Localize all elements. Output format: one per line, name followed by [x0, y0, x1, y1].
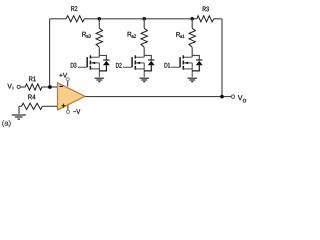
resistor R3 [197, 16, 214, 22]
resistor Ra3 [96, 28, 102, 47]
op-amp U1 [58, 83, 86, 110]
label Ra1 subscript [180, 35, 184, 38]
+V supply pin [67, 81, 69, 87]
label D3 [71, 63, 77, 68]
ground (cell D1) [188, 78, 198, 82]
wire op-amp output [85, 96, 231, 98]
label Ra2 subscript [132, 34, 136, 37]
wire R4 to non-inverting input [42, 105, 57, 107]
wire Ra3 to drain [98, 47, 100, 57]
label Ra2 [128, 32, 132, 37]
wire rail to Ra1 [191, 19, 193, 28]
wire rail node2 to node1 [144, 18, 192, 20]
label (a) [2, 120, 10, 127]
label D1 [165, 63, 171, 68]
ground (cell D3) [95, 78, 105, 82]
wire R4 left to ground [19, 106, 21, 114]
node junction dot on rail (cell 3) [98, 17, 102, 21]
label Vo [238, 95, 243, 100]
resistor R1 [25, 84, 42, 90]
body diode of D3 [99, 60, 110, 71]
wire left rail down [49, 19, 51, 87]
resistor R2 [66, 16, 84, 22]
label R2 [71, 6, 77, 11]
resistor R4 [21, 103, 42, 109]
label +V [59, 73, 67, 78]
wire top rail [50, 18, 66, 20]
wire rail node3 to node2 [99, 18, 144, 20]
label Vi subscript [12, 86, 14, 90]
wire rail node1 to R3 [192, 18, 197, 20]
label D2 [116, 63, 122, 68]
wire right rail down [221, 19, 223, 97]
label Ra1 [176, 32, 180, 37]
body diode of D2 [144, 60, 155, 71]
op-amp plus sign [62, 104, 66, 108]
wire Ra2 to drain [143, 47, 145, 57]
wire R3 to right corner [214, 18, 222, 20]
node junction dot on rail (cell 1) [190, 17, 194, 21]
node inverting input junction dot [48, 85, 52, 89]
label Ra3 subscript [86, 34, 90, 37]
wire jog to diode top [144, 55, 151, 60]
label R1 [29, 76, 36, 81]
wire jog to diode top [99, 55, 106, 60]
ground (R4) [12, 115, 26, 119]
label R4 [28, 95, 35, 100]
wire Vi to R1 [20, 86, 25, 88]
node output junction dot [220, 95, 224, 99]
label R3 [203, 6, 209, 11]
resistor Ra1 [189, 28, 195, 47]
wire rail to Ra2 [143, 19, 145, 28]
wire Ra1 to drain [191, 47, 193, 57]
wire rail to Ra3 [98, 19, 100, 28]
label -V [73, 109, 80, 114]
transistor D1 (MOSFET) [171, 55, 193, 77]
wire rail R2 to node3 [84, 18, 99, 20]
ground (cell D2) [140, 78, 150, 82]
op-amp minus sign [59, 85, 63, 87]
label Vo subscript [243, 99, 246, 103]
output terminal Vo [231, 95, 234, 98]
transistor D3 (MOSFET) [78, 55, 100, 77]
node junction dot on rail (cell 2) [142, 17, 146, 21]
label Ra3 [82, 32, 86, 37]
wire R1 to inverting node [42, 86, 58, 88]
body diode of D1 [192, 60, 203, 71]
transistor D2 (MOSFET) [123, 55, 145, 77]
resistor Ra2 [141, 28, 147, 47]
-V supply pin [67, 106, 69, 111]
wire jog to diode top [192, 55, 199, 60]
label Vi [7, 84, 11, 89]
